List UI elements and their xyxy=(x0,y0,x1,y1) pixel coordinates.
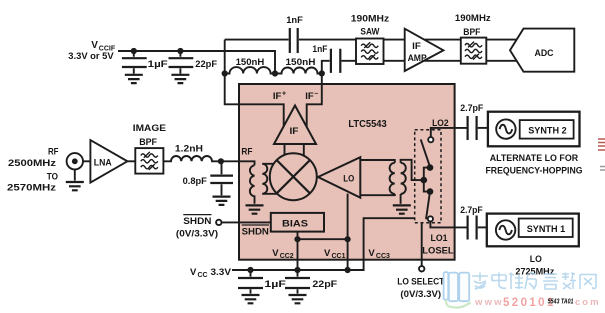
ground under 1uF xyxy=(242,295,260,303)
svg-text:LO: LO xyxy=(530,254,542,265)
svg-text:V: V xyxy=(91,40,98,51)
capacitor 0.8pF shunt xyxy=(210,161,233,195)
capacitor 1nF (series, bottom IF path) xyxy=(322,49,356,74)
capacitor 1uF (VCC bypass) xyxy=(238,270,263,294)
svg-text:BIAS: BIAS xyxy=(282,218,308,229)
label VCC 3.3V xyxy=(190,267,232,279)
svg-text:190MHz: 190MHz xyxy=(455,13,491,24)
inductor 150nH (left) xyxy=(225,67,275,73)
wire BPF to ADC (diff pair) xyxy=(486,40,517,61)
svg-text:LO SELECT: LO SELECT xyxy=(397,277,445,287)
node junction dot 22pF xyxy=(177,48,183,54)
node center-tap dot xyxy=(272,70,278,76)
svg-text:V: V xyxy=(272,248,279,259)
wire IF- net: right node down and into block to IF amp xyxy=(307,73,322,127)
svg-text:IF: IF xyxy=(412,41,421,51)
transformer LO primary xyxy=(390,163,395,194)
wire IF+ net: left node down and into block to IF amp xyxy=(225,40,284,127)
svg-text:5543 TA01: 5543 TA01 xyxy=(548,297,574,306)
wire VCC rail and VCC3 feed xyxy=(232,218,415,270)
pin label SHDN (inside, with overline) xyxy=(242,225,269,237)
wire secondary to mixer xyxy=(262,164,277,194)
node switch pivot lower xyxy=(427,188,434,195)
svg-text:22pF: 22pF xyxy=(312,279,337,290)
IC block LTC5543 body xyxy=(239,84,455,260)
watermark edge fragments xyxy=(598,139,605,170)
wire VCCIF rail to center tap xyxy=(118,51,275,74)
pin label VCC3 xyxy=(368,248,390,260)
svg-text:–: – xyxy=(314,91,318,98)
BIAS box xyxy=(271,213,324,232)
svg-text:3.3V or 5V: 3.3V or 5V xyxy=(68,51,113,61)
node dots on tie xyxy=(294,236,300,242)
svg-text:SHDN: SHDN xyxy=(242,227,269,237)
wire RF pin into transformer xyxy=(221,161,255,165)
svg-text:RF: RF xyxy=(241,147,253,157)
svg-text:FREQUENCY-HOPPING: FREQUENCY-HOPPING xyxy=(486,166,583,176)
inductor 150nH (right) xyxy=(275,68,322,74)
svg-text:LTC5543: LTC5543 xyxy=(348,119,387,130)
svg-text:2.7pF: 2.7pF xyxy=(460,205,483,216)
ground under 0.8pF xyxy=(213,197,231,205)
wire IF AMP to BPF (diff pair) xyxy=(424,40,461,61)
wire pivot to common xyxy=(424,168,430,181)
svg-text:SHDN: SHDN xyxy=(183,216,211,226)
capacitor 1nF (series, top IF path) xyxy=(225,28,356,53)
svg-text:3.3V: 3.3V xyxy=(211,267,232,278)
svg-text:22pF: 22pF xyxy=(195,59,217,70)
mixer circle with X xyxy=(270,153,317,200)
svg-text:150nH: 150nH xyxy=(236,57,265,68)
wire LO2 out to cap xyxy=(431,128,467,137)
wire LOSEL down to terminal xyxy=(421,223,423,266)
switch arm upper (open) xyxy=(421,139,430,165)
svg-text:CC3: CC3 xyxy=(376,253,390,260)
transformer LO secondary xyxy=(401,163,406,194)
op-amp LO buffer triangle (pointing left) xyxy=(318,157,360,197)
svg-text:2570MHz: 2570MHz xyxy=(7,183,57,193)
wire LO1 out to cap xyxy=(430,222,466,228)
svg-text:0.8pF: 0.8pF xyxy=(183,176,207,187)
svg-text:1µF: 1µF xyxy=(148,59,168,70)
node junction dot 1uF xyxy=(131,48,137,54)
svg-text:LO: LO xyxy=(343,173,354,184)
transformer RF balun primary xyxy=(250,165,255,203)
ground under 1uF xyxy=(125,75,143,83)
wire SAW to IF AMP (diff pair) xyxy=(384,40,405,61)
svg-text:190MHz: 190MHz xyxy=(351,13,390,24)
terminal LO SELECT circle xyxy=(419,266,424,271)
capacitor 22pF (VCC bypass) xyxy=(285,270,310,294)
wire LO secondary top to switch common xyxy=(401,160,422,180)
svg-text:1.2nH: 1.2nH xyxy=(175,144,203,155)
svg-text:IF: IF xyxy=(290,126,299,137)
switch box (dashed) xyxy=(415,130,441,223)
watermark book icon xyxy=(444,272,471,307)
transformer RF balun secondary xyxy=(262,164,267,194)
wire LNA to IMAGE BPF xyxy=(127,160,135,162)
switch arm lower (to LO1) xyxy=(426,192,430,220)
svg-text:V: V xyxy=(190,267,197,278)
pin label IF- xyxy=(305,91,318,103)
SYNTH 2 source box xyxy=(488,112,580,147)
svg-text:IF: IF xyxy=(305,91,314,102)
wire VCC1 from LO amp down to rail xyxy=(347,194,349,270)
wire bias-vcc1 tie xyxy=(298,238,348,240)
svg-text:(0V/3.3V): (0V/3.3V) xyxy=(176,229,218,239)
wire IF amp to mixer (diff pair) xyxy=(285,144,304,156)
watermark chinese characters xyxy=(472,273,596,290)
wire connector to LNA xyxy=(83,160,90,162)
op-amp IF AMP triangle xyxy=(405,29,444,71)
svg-text:ALTERNATE LO FOR: ALTERNATE LO FOR xyxy=(490,153,579,163)
BPF filter box 190MHz xyxy=(461,38,487,64)
svg-text:(0V/3.3V): (0V/3.3V) xyxy=(400,289,441,299)
pin label VCC1 xyxy=(324,248,346,260)
pin label VCC2 xyxy=(272,248,294,260)
svg-text:SYNTH 2: SYNTH 2 xyxy=(528,125,567,136)
wire common to lower pivot xyxy=(424,180,430,192)
svg-text:BPF: BPF xyxy=(139,137,157,148)
inductor 1.2nH xyxy=(163,156,221,161)
svg-text:CC2: CC2 xyxy=(280,253,294,260)
node RF match dot xyxy=(218,158,224,164)
svg-text:TO: TO xyxy=(47,171,58,181)
switch LO2 contact circle xyxy=(428,137,433,142)
ADC block xyxy=(510,29,574,72)
node VCCIF: label xyxy=(68,40,116,61)
ground under 22pF xyxy=(171,75,189,83)
svg-text:LOSEL: LOSEL xyxy=(422,246,454,256)
svg-text:2725MHz: 2725MHz xyxy=(515,266,554,277)
svg-text:1nF: 1nF xyxy=(286,15,303,26)
svg-text:com: com xyxy=(575,297,601,308)
ground RF balun xyxy=(246,205,264,213)
svg-text:IMAGE: IMAGE xyxy=(133,123,166,134)
node switch pivot upper xyxy=(427,164,434,171)
wire connector stub to ground xyxy=(74,170,76,181)
svg-text:ADC: ADC xyxy=(535,48,554,59)
SYNTH 1 source box xyxy=(487,214,579,247)
RF input connector xyxy=(67,153,83,169)
ground under 22pF xyxy=(289,295,307,303)
wire VCC2 from BIAS down to rail xyxy=(297,232,299,270)
capacitor 2.7pF (LO1) xyxy=(468,216,487,240)
capacitor 2.7pF (LO2) xyxy=(468,116,488,140)
pin label IF+ xyxy=(273,91,286,103)
svg-text:SYNTH 1: SYNTH 1 xyxy=(527,224,566,235)
IMAGE BPF filter box xyxy=(135,148,163,174)
label SHDN outside (with overline) xyxy=(176,215,218,239)
svg-text:RF: RF xyxy=(48,147,59,157)
label RF input frequencies xyxy=(7,147,59,193)
capacitor 1uF (VCCIF bypass) xyxy=(122,51,147,74)
amplifier LNA xyxy=(90,140,127,183)
capacitor 22pF (VCCIF bypass) xyxy=(169,51,194,74)
svg-text:150nH: 150nH xyxy=(286,57,316,68)
svg-text:LO1: LO1 xyxy=(431,233,449,244)
svg-text:LNA: LNA xyxy=(94,157,112,168)
ground LO transformer xyxy=(393,205,411,213)
svg-text:CC1: CC1 xyxy=(332,253,346,260)
ground RF connector xyxy=(66,182,84,190)
svg-text:V: V xyxy=(368,248,375,259)
svg-text:2500MHz: 2500MHz xyxy=(8,158,57,168)
wire LO amp to LO transformer xyxy=(360,160,395,195)
wire SHDN terminal to BIAS xyxy=(222,221,271,223)
svg-text:V: V xyxy=(324,248,331,259)
node switch common xyxy=(421,177,428,184)
node rail dots xyxy=(247,267,253,273)
watermark www.520101.com xyxy=(474,297,601,309)
svg-text:1nF: 1nF xyxy=(312,44,327,55)
svg-text:1µF: 1µF xyxy=(264,279,286,290)
svg-text:BPF: BPF xyxy=(463,27,480,38)
svg-text:2.7pF: 2.7pF xyxy=(460,103,483,114)
svg-text:+: + xyxy=(282,91,286,98)
svg-text:SAW: SAW xyxy=(360,27,379,38)
SAW filter box 190MHz xyxy=(356,39,384,65)
wire LO secondary bottom to ground xyxy=(400,194,402,204)
op-amp IF (inside block, pointing up) xyxy=(274,106,316,145)
switch LO1 contact circle xyxy=(428,216,433,221)
svg-text:CC: CC xyxy=(198,272,208,279)
svg-text:IF: IF xyxy=(273,91,282,102)
node IF- dot xyxy=(319,70,325,76)
node IF+ dot xyxy=(222,70,228,76)
terminal SHDN circle xyxy=(216,220,221,225)
